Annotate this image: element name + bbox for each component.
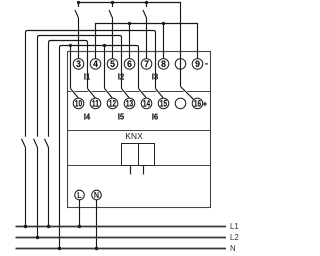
svg-text:4: 4 [93,59,98,69]
node S1 top [77,1,80,4]
svg-text:15: 15 [160,99,167,109]
svg-text:I1: I1 [84,72,91,82]
bus line L2 [16,237,227,239]
svg-text:N: N [94,191,99,200]
wire W2: L2 phase to terminal 13 [34,36,122,238]
wire W3: L1 phase to terminal 11 [45,41,88,227]
terminal numbers row 2 [75,99,201,109]
node W0-c6 [128,22,131,25]
wire W4: neutral rail to terminals 10,12,14 [60,46,139,249]
terminal 12 [107,98,118,109]
wire L to L1 [79,200,81,227]
terminal 5 [107,59,118,70]
svg-text:L: L [77,191,81,200]
wire diag to 10 [71,89,79,99]
device box [68,52,211,208]
wire N to N [96,200,98,249]
terminal circles row 1 [73,59,203,70]
switch S2 [109,3,113,59]
separator line 2 [68,130,211,132]
node v1-L1 [24,225,27,228]
white casings for diagonal drops over separator [71,87,194,100]
node W0-c8 [162,22,165,25]
svg-text:L1: L1 [230,222,239,231]
svg-text:5: 5 [110,59,115,69]
svg-text:6: 6 [127,59,132,69]
node S2 top [111,1,114,4]
svg-text:12: 12 [109,99,116,109]
node W4-c12 [103,44,106,47]
node N-N [95,247,98,250]
svg-text:13: 13 [126,99,133,109]
wire: minus rail W0 to terminals 4,6,8,9 [96,24,198,59]
terminal 7 [141,59,152,70]
switch S3 [143,3,147,59]
svg-text:11: 11 [92,99,99,109]
svg-text:N: N [230,244,236,253]
node L-L1 [78,225,81,228]
terminal 14 [141,98,152,109]
svg-text:7: 7 [144,59,149,69]
terminal numbers row 1 [76,59,200,69]
node v3-L1 [47,225,50,228]
terminal circles row 2 [73,98,203,109]
terminal 8 [158,59,169,70]
wire W1: L1 phase to terminal 15 [22,31,156,227]
terminal 15 [158,98,169,109]
wire diag to 13 [122,89,130,99]
node v4-N [58,247,61,250]
svg-text:I3: I3 [152,72,159,82]
svg-text:10: 10 [75,99,82,109]
svg-text:8: 8 [161,59,166,69]
KNX bus connector block [122,144,155,175]
svg-text:I4: I4 [84,111,91,121]
wire diag to 15 [156,89,164,99]
wire diag to 16 [181,87,194,100]
KNX pin 1 [130,166,132,175]
terminal blank top [175,59,186,70]
svg-text:I5: I5 [118,111,125,121]
bus line N [16,248,227,250]
svg-text:14: 14 [143,99,150,109]
terminal 6 [124,59,135,70]
plus label [203,102,207,106]
terminal blank bottom [175,98,186,109]
terminal 13 [124,98,135,109]
terminal L [75,190,85,200]
wire diag to 14 [139,89,147,99]
wire diag to 11 [88,89,96,99]
terminal 3 [73,59,84,70]
svg-text:16: 16 [194,99,201,109]
terminal 11 [90,98,101,109]
svg-text:L2: L2 [230,233,239,242]
node W4-c10 [69,44,72,47]
terminal 16 [192,98,203,109]
svg-text:3: 3 [76,59,81,69]
terminal 9 [192,59,203,70]
node v2-L2 [36,236,39,239]
separator line 3 [68,165,211,167]
wire: top rail feeding terminal 16+ [79,3,181,87]
switch S1 [75,3,79,59]
svg-text:9: 9 [195,59,200,69]
terminal 4 [90,59,101,70]
svg-text:KNX: KNX [125,132,143,141]
wire diag to 12 [105,89,113,99]
node S3 top [145,1,148,4]
terminal N [92,190,102,200]
svg-text:I6: I6 [152,111,159,121]
bus line L1 [16,226,227,228]
svg-text:I2: I2 [118,72,125,82]
terminal 10 [73,98,84,109]
separator line 1 [68,91,211,93]
minus label [205,63,208,65]
KNX pin 2 [143,166,145,175]
